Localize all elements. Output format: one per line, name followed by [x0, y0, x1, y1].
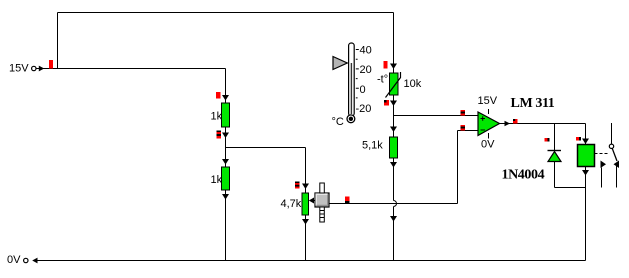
wire pot wiper run — [329, 203, 458, 205]
potentiometer shaft top — [320, 183, 325, 193]
current arrow at 0V terminal — [32, 258, 37, 264]
potentiometer wiper arrow — [309, 198, 315, 204]
voltage mark above thermistor — [384, 61, 388, 69]
thermistor label -t° — [377, 74, 388, 86]
current arrow below R1 — [222, 133, 229, 139]
svg-text:15V: 15V — [478, 95, 498, 107]
current arrow below pot — [302, 219, 309, 225]
svg-text:0: 0 — [360, 84, 366, 96]
value label R1 1k — [211, 111, 223, 123]
wire pot bottom to rail — [305, 215, 307, 261]
current arrow on output — [505, 121, 511, 127]
wire diode to relay bottom link — [555, 187, 586, 189]
diode D1 1N4004 — [548, 151, 562, 162]
voltage mark below thermistor — [384, 100, 389, 106]
svg-text:LM 311: LM 311 — [511, 96, 555, 111]
wire R2 bottom to rail — [225, 190, 227, 261]
wire 5.1k bottom upper part — [393, 158, 395, 201]
svg-text:15V: 15V — [9, 63, 29, 75]
terminal 0V circle — [24, 258, 28, 262]
svg-text:4,7k: 4,7k — [281, 198, 302, 210]
resistor R1 1k — [222, 103, 230, 127]
wire riser to top rail — [57, 13, 59, 69]
voltage mark on plus input — [461, 110, 466, 116]
current arrow above pot — [302, 184, 309, 190]
svg-text:-20: -20 — [356, 103, 372, 115]
wire 15V feed horizontal — [36, 68, 226, 70]
voltage mark on relay lead — [576, 137, 581, 141]
voltage mark below R1 — [217, 131, 222, 139]
svg-text:1k: 1k — [211, 111, 223, 123]
svg-text:0V: 0V — [7, 254, 21, 266]
potentiometer shaft bottom screw — [320, 207, 325, 222]
wire thermistor to 5.1k — [393, 95, 395, 137]
thermistor body 10k — [386, 72, 401, 98]
voltage mark on wiper run — [345, 197, 350, 204]
comparator supply label 15V — [478, 95, 498, 107]
relay linkage dashed — [595, 153, 610, 155]
current arrow above R1 — [222, 95, 229, 101]
svg-text:10k: 10k — [404, 78, 422, 90]
wire switch left contact — [601, 168, 603, 188]
node 0V label — [7, 254, 21, 266]
thermometer bulb — [347, 115, 355, 123]
wire branch to potentiometer — [226, 147, 306, 149]
comparator supply label 0V — [481, 139, 495, 151]
node 15V label — [9, 63, 29, 75]
current arrow above thermistor — [390, 64, 397, 70]
wire switch common — [611, 123, 613, 144]
svg-text:1k: 1k — [211, 174, 223, 186]
current arrow below 5.1k — [390, 162, 397, 168]
thermometer scale ticks — [356, 50, 359, 98]
value label 5,1k — [362, 140, 383, 152]
op-amp comparator U1 body — [478, 109, 500, 139]
switch blade — [612, 148, 617, 161]
part label 1N4004 — [502, 168, 545, 183]
wire switch right contact — [616, 163, 618, 188]
svg-text:1N4004: 1N4004 — [502, 168, 545, 183]
voltage mark above R1 — [216, 92, 221, 99]
resistor 5.1k — [390, 137, 398, 158]
scale label 40 — [360, 45, 372, 57]
current arrow at 15V terminal — [39, 66, 44, 72]
value label R2 1k — [211, 174, 223, 186]
voltage mark above pot — [295, 182, 300, 189]
thermometer mercury column — [350, 63, 352, 114]
current arrow above R2 — [222, 159, 229, 165]
terminal 15V circle — [32, 66, 36, 70]
potentiometer knob — [315, 193, 329, 207]
wire hop over pot wiper run — [394, 201, 397, 207]
current arrow below relay — [582, 170, 589, 176]
value label 10k — [404, 78, 422, 90]
svg-text:0V: 0V — [481, 139, 495, 151]
current arrow below hop — [390, 216, 397, 222]
voltage mark on minus input — [461, 125, 466, 131]
potentiometer body 4.7k — [302, 193, 309, 215]
wire comparator output — [499, 123, 586, 125]
svg-text:-t°: -t° — [377, 74, 388, 86]
wire relay bottom to rail — [585, 167, 587, 261]
resistor R2 1k — [222, 167, 230, 190]
wire diode top lead — [554, 124, 556, 151]
svg-text:40: 40 — [360, 45, 372, 57]
scale label 20 — [360, 64, 372, 76]
wire plus input — [394, 115, 479, 117]
wire pot top lead — [305, 148, 307, 194]
part label LM 311 — [511, 96, 555, 111]
svg-text:20: 20 — [360, 64, 372, 76]
scale label degC — [332, 116, 344, 128]
wire minus input riser — [457, 131, 459, 204]
wire R1 top lead — [225, 69, 227, 104]
relay coil K1 — [578, 145, 595, 167]
thermometer pointer — [333, 57, 347, 70]
wire relay top lead — [585, 124, 587, 145]
value label 4,7k — [281, 198, 302, 210]
wire top rail — [58, 12, 394, 14]
current arrow below R2 — [222, 194, 229, 200]
switch pole circle — [609, 144, 613, 148]
wire 5.1k bottom lower part to rail — [393, 207, 395, 261]
voltage mark on 15V wire — [49, 60, 53, 69]
scale label 0 — [360, 84, 366, 96]
wire minus input — [458, 130, 479, 132]
wire diode bottom lead — [554, 162, 556, 188]
switch left contact arrow — [601, 161, 607, 169]
svg-text:5,1k: 5,1k — [362, 140, 383, 152]
switch right contact arrow — [614, 161, 620, 169]
current arrow above 5.1k — [390, 127, 397, 133]
wire R1-R2 link — [225, 127, 227, 167]
wire thermistor top lead — [393, 13, 395, 74]
wire 0V bottom rail — [34, 260, 586, 262]
voltage mark on output — [513, 119, 518, 124]
current arrow below thermistor — [390, 101, 397, 107]
scale label -20 — [356, 103, 372, 115]
voltage mark on diode lead — [545, 138, 550, 142]
current arrow above relay — [582, 139, 589, 145]
thermometer tube — [349, 43, 355, 116]
svg-text:°C: °C — [332, 116, 344, 128]
